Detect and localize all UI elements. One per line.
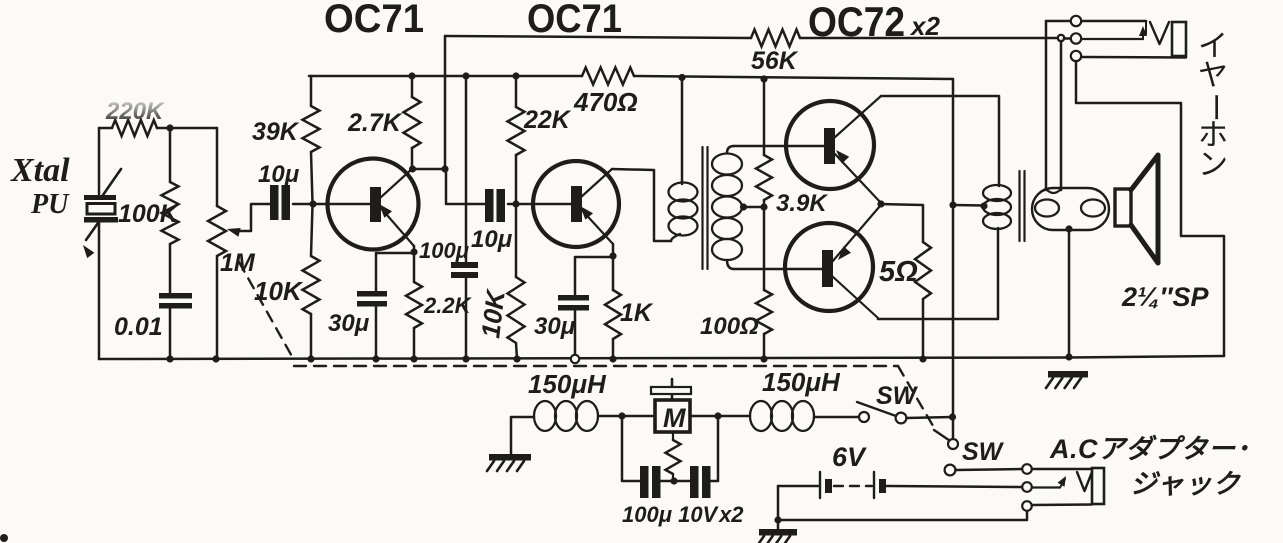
- earphone contact 3: [1071, 51, 1081, 61]
- wire riser tap down to C2: [446, 169, 485, 204]
- wire 100uF branch bottom: [465, 278, 468, 359]
- svg-text:Xtal: Xtal: [10, 152, 70, 189]
- label 10K-1: [254, 276, 304, 306]
- battery cell 2: [874, 472, 886, 498]
- wire 2.2K bottom lead: [413, 328, 416, 359]
- svg-text:イ: イ: [1198, 30, 1228, 63]
- svg-text:M: M: [663, 403, 686, 433]
- crystal pickup Xtal PU: [83, 169, 121, 258]
- node rail B 3.9K: [760, 75, 767, 82]
- wire 100K to 0.01: [169, 244, 172, 293]
- switch SW1 lever: [857, 402, 896, 416]
- label 30u C3: [328, 310, 370, 337]
- wire 39K top lead: [310, 76, 313, 106]
- earphone contact 2: [1071, 33, 1081, 43]
- svg-text:ヤ: ヤ: [1198, 60, 1228, 93]
- svg-text:A.Cアダプター･: A.Cアダプター･: [1049, 434, 1250, 464]
- svg-text:470Ω: 470Ω: [573, 87, 638, 117]
- resistor 22K: [508, 107, 525, 155]
- ground G3 battery: [757, 529, 797, 543]
- capacitor C2 10uF: [485, 189, 505, 222]
- wire ground rail: [99, 356, 1224, 359]
- wire Q1 emitter to 30uF: [376, 253, 414, 291]
- node 5ohm ground: [919, 355, 926, 362]
- wire between caps: [661, 480, 691, 483]
- label Xtal: [10, 152, 70, 189]
- svg-text:OC71: OC71: [527, 0, 622, 41]
- node rail A end: [1058, 35, 1064, 41]
- wire 39K bottom lead: [311, 152, 313, 203]
- resistor 100K: [162, 182, 179, 244]
- wire Q2 emitter to 30uF-2: [575, 257, 613, 295]
- earphone plug tip V: [1150, 22, 1169, 44]
- motor M block: [655, 400, 690, 433]
- label 2.25 SP: [1121, 282, 1209, 312]
- label 56K: [751, 47, 799, 75]
- transistor Q4 OC72 (bottom): [785, 206, 880, 318]
- node T2 center tap: [980, 202, 987, 209]
- wire SW2 to AC jack: [955, 469, 1022, 470]
- wire stadium left riser: [1045, 21, 1048, 190]
- ground G4 speaker return: [1046, 371, 1088, 388]
- wire pot top: [216, 128, 219, 206]
- wire 22K top lead: [515, 76, 518, 107]
- paper mark: [0, 534, 8, 542]
- wire contact1 right: [1082, 20, 1147, 23]
- svg-text:SW: SW: [962, 438, 1005, 466]
- capacitor C7 100uF/10V: [640, 466, 661, 498]
- svg-text:3.9K: 3.9K: [776, 190, 828, 217]
- svg-text:39K: 39K: [252, 118, 300, 146]
- label 220K: [105, 98, 165, 125]
- label 10u C1: [258, 161, 300, 188]
- transistor Q3 OC72 (top): [786, 96, 881, 203]
- wire 100ohm bottom lead: [763, 334, 766, 359]
- wire stadium to ground rail: [1068, 229, 1071, 357]
- label OC72: [808, 0, 905, 45]
- node rail B 22K: [512, 72, 519, 79]
- label OC71 first: [324, 0, 424, 41]
- wire AC contact2 right with arrow: [1032, 476, 1066, 488]
- transformer T2 core: [1020, 171, 1025, 241]
- wire railA to contact2: [1064, 37, 1071, 40]
- wire 22K bottom lead: [515, 155, 518, 204]
- wire 1K top lead: [612, 257, 615, 290]
- battery dashed middle: [834, 485, 872, 487]
- wire 100uF branch top: [465, 76, 468, 262]
- svg-text:100μ: 100μ: [419, 238, 469, 263]
- AC plug tip V: [1077, 472, 1092, 491]
- wire Q2 emitter stub: [612, 244, 615, 256]
- switch SW2 contact bottom: [945, 465, 956, 476]
- motor resistor: [666, 432, 681, 478]
- earphone contact 1: [1071, 16, 1081, 26]
- node stadium rail junction: [1065, 353, 1072, 360]
- wire emitters to 5ohm: [881, 204, 923, 242]
- svg-text:OC71: OC71: [324, 0, 424, 41]
- svg-text:ー: ー: [1198, 92, 1231, 122]
- node supply-emitterline: [949, 201, 956, 208]
- transformer T2 secondary (stadium with loops): [1032, 188, 1109, 230]
- label 150uH second: [762, 367, 841, 397]
- capacitor 0.01: [159, 293, 192, 309]
- label 2.2K: [423, 293, 473, 318]
- battery cell 1: [820, 472, 832, 498]
- wire caps right branch: [711, 416, 719, 481]
- wire 3.9K top lead: [763, 79, 766, 155]
- resistor 1K: [605, 290, 621, 339]
- svg-text:0.01: 0.01: [114, 313, 163, 341]
- svg-text:ジャック: ジャック: [1130, 469, 1242, 499]
- label 2.7K: [347, 109, 403, 137]
- wire AC contact1 right: [1032, 468, 1092, 471]
- svg-text:6V: 6V: [832, 442, 867, 472]
- svg-text:SW: SW: [876, 382, 919, 410]
- switch SW2 lever: [934, 430, 950, 441]
- node rail 1K: [609, 355, 616, 362]
- label 10u C2: [471, 226, 513, 253]
- label SW2: [962, 438, 1005, 466]
- transformer T2 primary: [983, 185, 1011, 229]
- wire input left vertical (top segment): [98, 128, 101, 194]
- wire rail B (left part): [309, 75, 582, 78]
- wire Q3 collector to T2 top: [881, 96, 999, 186]
- wire pot bottom: [216, 256, 219, 359]
- wire contact2 right with arrow: [1082, 26, 1148, 39]
- wire battery to ground: [777, 486, 780, 529]
- svg-text:22K: 22K: [523, 106, 572, 134]
- label 6V: [832, 442, 867, 472]
- label x2: [909, 11, 940, 41]
- wire contact1 left: [1046, 20, 1071, 23]
- label 100ohm: [700, 313, 759, 340]
- potentiometer 1M: [208, 206, 226, 256]
- node Q2 emitter: [609, 252, 616, 259]
- dashed link pot to switch: [239, 262, 936, 431]
- wire tap junction down: [763, 207, 766, 290]
- wire M to L2: [690, 415, 750, 418]
- node rail B 2.7K: [408, 72, 415, 79]
- label PU: [30, 189, 70, 220]
- wire rail B (right part): [634, 76, 953, 79]
- label 100K: [118, 200, 180, 228]
- svg-text:100Ω: 100Ω: [700, 313, 759, 340]
- node M-L2 junction: [714, 412, 721, 419]
- label 1K: [620, 299, 654, 327]
- label 100u 10V x2: [622, 502, 744, 527]
- wire 30uF-2 bottom: [574, 311, 577, 359]
- node battery-row3: [774, 516, 781, 523]
- wire C1 to base node: [293, 203, 370, 206]
- node rail 2.2K: [410, 355, 417, 362]
- wire base line Q3: [734, 145, 824, 148]
- resistor 39K: [303, 106, 320, 152]
- node top-left junction: [166, 124, 173, 131]
- wire plug stub: [1145, 22, 1147, 34]
- transistor Q2 OC71: [533, 161, 619, 247]
- label 3.9K: [776, 190, 828, 217]
- label 30u C5: [534, 313, 576, 340]
- wire 10K-2 top lead: [515, 204, 518, 277]
- wire collector node to feedback riser: [413, 168, 445, 171]
- wire caps left branch: [622, 416, 640, 481]
- wire L2 to SW1: [814, 416, 859, 419]
- resistor 3.9K: [756, 155, 772, 200]
- ground G2 motor: [487, 454, 531, 471]
- label 150uH first: [528, 369, 607, 399]
- node rail 100uF: [462, 355, 469, 362]
- label 10K-2 rotated: [475, 287, 511, 340]
- wire rail A (right part): [800, 37, 1056, 40]
- inductor L2 150uH: [750, 401, 814, 431]
- wire AC contact3 to sleeve: [1032, 503, 1092, 506]
- node common emitters: [877, 200, 884, 207]
- wire 30uF-1 bottom: [375, 307, 378, 359]
- wire 5ohm bottom lead: [922, 299, 925, 359]
- node resistor-caps: [670, 477, 677, 484]
- svg-text:10μ: 10μ: [258, 161, 300, 188]
- AC jack contact 3: [1022, 501, 1032, 511]
- node stadium bottom: [1065, 225, 1072, 232]
- svg-text:10K: 10K: [475, 287, 511, 340]
- node rail 30uF-2 ring: [571, 355, 579, 363]
- label earphone vertical: [1198, 30, 1231, 181]
- svg-text:220K: 220K: [105, 98, 165, 125]
- wire Q1 emitter stub: [413, 246, 416, 252]
- inductor L1 150uH: [534, 401, 598, 431]
- wire top-left node: [99, 127, 217, 130]
- wire Q4 collector to T2 bottom: [878, 228, 998, 319]
- svg-text:30μ: 30μ: [534, 313, 576, 340]
- resistor 2.7K: [404, 97, 421, 148]
- capacitor C4 100uF: [451, 262, 478, 278]
- resistor 5ohm: [915, 242, 931, 299]
- node rail 10K-1: [307, 355, 314, 362]
- capacitor C3 30uF: [357, 291, 387, 307]
- wire input left vertical (bottom segment): [98, 223, 101, 359]
- wire T1 center tap: [742, 206, 764, 209]
- svg-text:100K: 100K: [118, 200, 180, 228]
- AC jack contact 2: [1022, 482, 1032, 492]
- wire C2 to base node Q2: [508, 203, 571, 206]
- node T1 center tap: [740, 203, 747, 210]
- resistor 10K-2: [508, 277, 525, 343]
- wire 1K bottom lead: [612, 339, 615, 359]
- label 5ohm: [879, 256, 918, 288]
- wire battery right: [886, 486, 1022, 487]
- node feedback riser: [441, 165, 448, 172]
- svg-text:2.7K: 2.7K: [347, 109, 403, 137]
- svg-text:5Ω: 5Ω: [879, 256, 918, 288]
- wire battery left: [778, 485, 818, 488]
- svg-text:56K: 56K: [751, 47, 799, 75]
- node rail 30uF-1: [372, 355, 379, 362]
- wire 10K-1 bottom lead: [310, 314, 313, 359]
- label AC adapter line1: [1049, 434, 1250, 464]
- wire 10K-1 top lead: [311, 205, 313, 256]
- label OC71 second: [527, 0, 622, 41]
- label 22K: [523, 106, 572, 134]
- wire L1 to M: [598, 415, 655, 418]
- svg-text:1K: 1K: [620, 299, 654, 327]
- node rail 0.01: [166, 355, 173, 362]
- label 1M: [220, 249, 256, 277]
- node rail 10K-2: [513, 355, 520, 362]
- node rail B T1: [678, 74, 685, 81]
- svg-text:2¼″SP: 2¼″SP: [1121, 282, 1209, 312]
- wire 100K branch top: [169, 128, 172, 182]
- label AC adapter line2: [1130, 469, 1242, 499]
- wire supply riser: [952, 79, 955, 439]
- transformer T1 core: [703, 147, 708, 269]
- wire contact3 return: [1076, 61, 1224, 356]
- label 0.01: [114, 313, 163, 341]
- svg-text:100μ 10V x2: 100μ 10V x2: [622, 502, 744, 527]
- svg-text:OC72: OC72: [808, 0, 905, 45]
- switch SW2 contact top: [948, 439, 958, 449]
- resistor 10K-1: [303, 256, 320, 314]
- node supply-SW1: [949, 413, 956, 420]
- resistor 470ohm: [582, 68, 634, 85]
- svg-text:PU: PU: [30, 189, 70, 220]
- wire 2.7K bottom lead: [411, 148, 414, 169]
- wire T2 center tap: [953, 204, 984, 207]
- wire rail A (left part): [445, 36, 751, 38]
- wire 10K-2 bottom lead: [516, 343, 517, 359]
- svg-text:30μ: 30μ: [328, 310, 370, 337]
- wire 0.01 to rail: [169, 309, 172, 359]
- label 100u C4: [419, 238, 469, 263]
- motor trimmer: [651, 379, 691, 400]
- svg-text:1M: 1M: [220, 249, 256, 277]
- wire contact3 right: [1082, 56, 1187, 59]
- label 470ohm: [573, 87, 638, 117]
- resistor 100ohm: [756, 290, 772, 334]
- svg-text:150μH: 150μH: [528, 369, 607, 399]
- speaker 2.25in SP: [1115, 155, 1158, 263]
- wire row3: [778, 511, 1027, 520]
- svg-text:150μH: 150μH: [762, 367, 841, 397]
- svg-text:ン: ン: [1198, 148, 1228, 181]
- svg-text:10μ: 10μ: [471, 226, 513, 253]
- AC plug sleeve: [1092, 468, 1104, 504]
- node base Q1: [309, 200, 316, 207]
- resistor 220K: [112, 120, 157, 136]
- node rail B 100uF: [462, 72, 469, 79]
- node rail 100ohm: [760, 355, 767, 362]
- wire rail A feedback riser: [444, 36, 447, 169]
- resistor 2.7K top lead: [411, 76, 414, 97]
- earphone plug sleeve: [1172, 22, 1186, 56]
- svg-text:ホ: ホ: [1198, 119, 1228, 152]
- label 39K: [252, 118, 300, 146]
- transformer T1 primary: [669, 78, 698, 241]
- svg-text:2.2K: 2.2K: [423, 293, 473, 318]
- node Q1 emitter: [410, 248, 417, 255]
- transformer T1 secondary: [712, 146, 742, 269]
- capacitor C8 100uF/10V: [690, 466, 711, 498]
- capacitor C1 10uF: [270, 185, 290, 220]
- svg-text:x2: x2: [909, 11, 940, 41]
- wire stadium right riser: [1060, 41, 1063, 190]
- switch SW1 contact left: [859, 412, 869, 422]
- node rail pot: [212, 355, 219, 362]
- capacitor C5 30uF: [558, 295, 589, 311]
- wire L1 ground lead: [511, 417, 534, 454]
- node L1-M junction: [618, 412, 625, 419]
- AC jack contact 1: [1022, 464, 1032, 474]
- node base Q2: [512, 200, 519, 207]
- wire Q2 collector to T1: [612, 169, 671, 241]
- resistor 56K: [751, 30, 800, 47]
- node tap-3.9K junction: [760, 203, 767, 210]
- transistor Q1 OC71: [328, 159, 419, 250]
- label SW1: [876, 382, 919, 410]
- wire 2.2K top lead: [413, 253, 416, 282]
- wire 3.9K bottom lead: [763, 200, 766, 207]
- pot wiper arrow: [227, 204, 270, 237]
- node Q1 collector: [409, 165, 416, 172]
- resistor 2.2K: [406, 282, 422, 328]
- wire base line Q4: [734, 268, 822, 271]
- switch SW1 contact right: [896, 413, 907, 424]
- wire SW1 to supply riser: [906, 417, 952, 418]
